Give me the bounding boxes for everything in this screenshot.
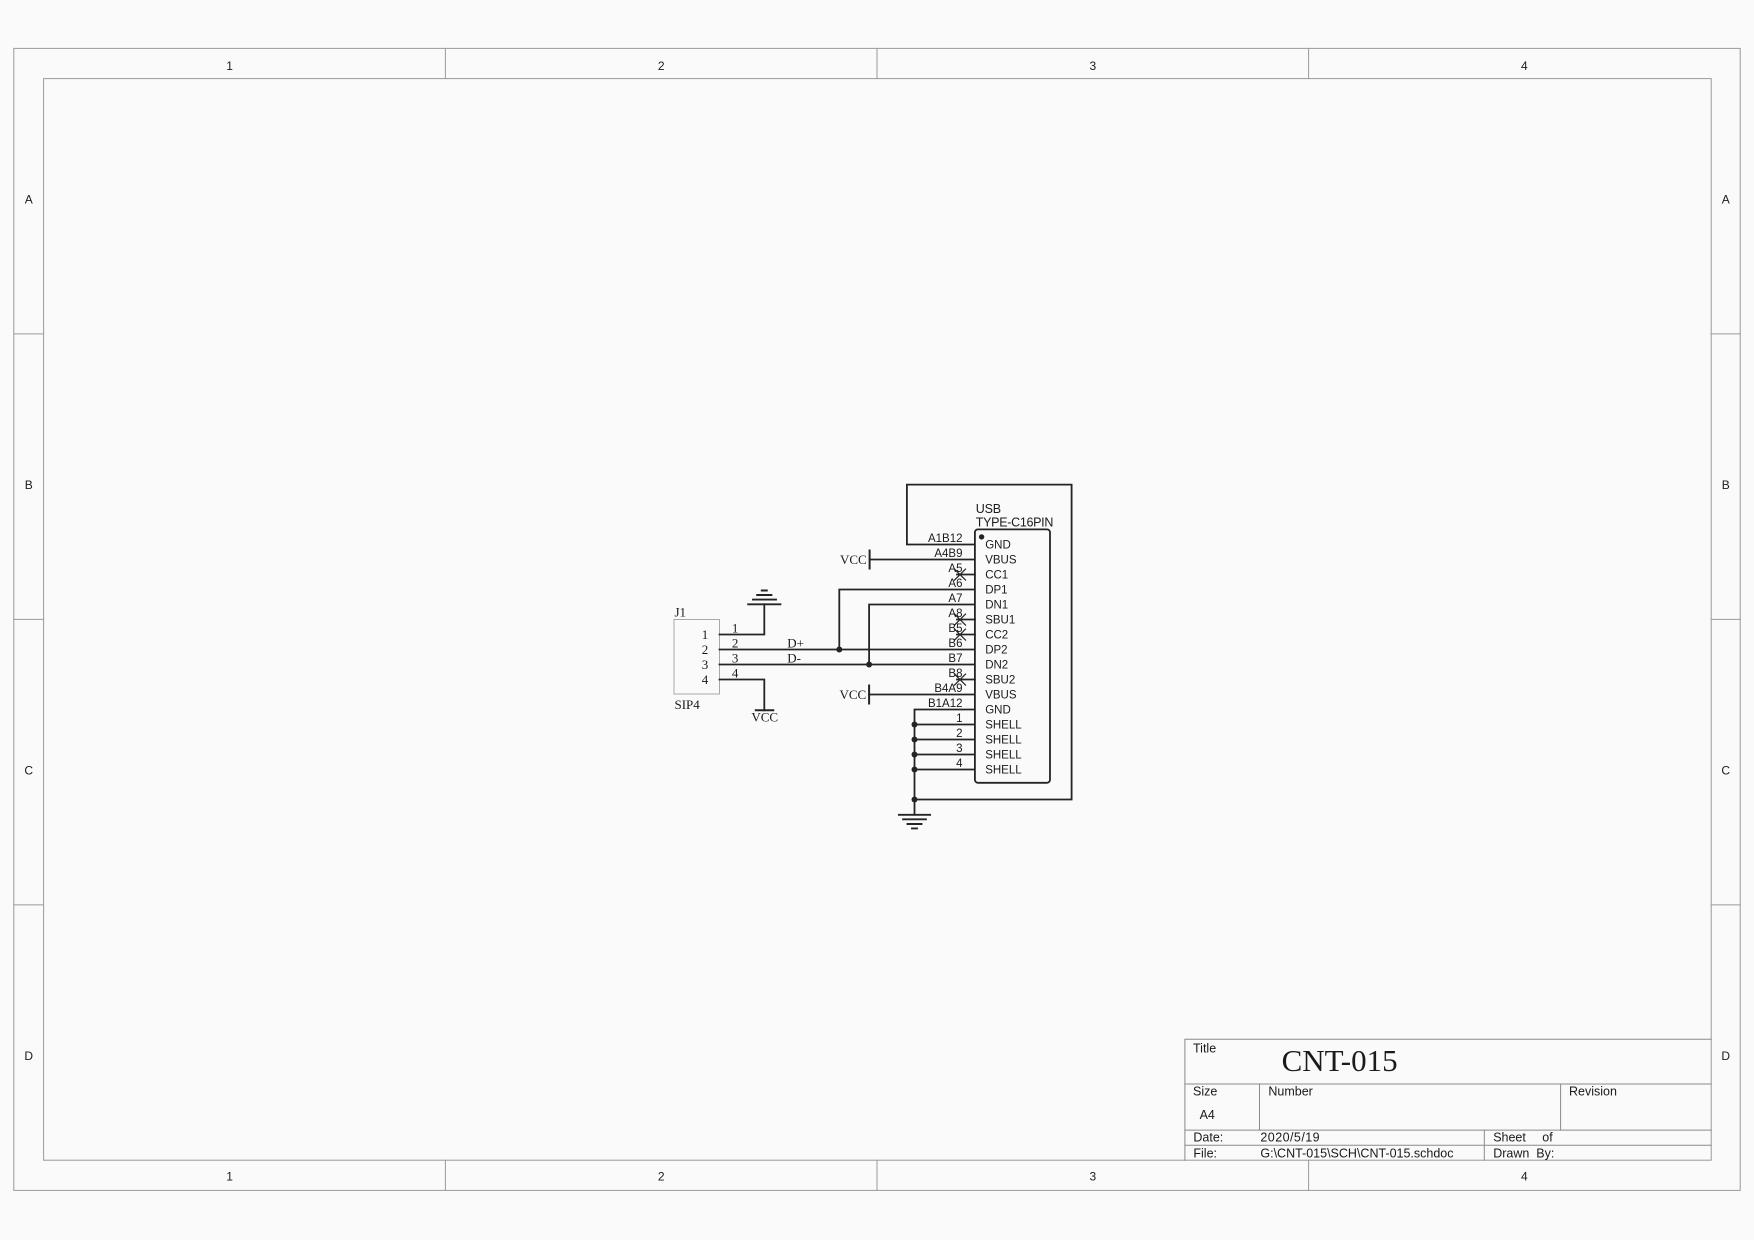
zone labels bottom 1 2 3 4 [226, 1169, 1528, 1183]
svg-text:CC2: CC2 [985, 630, 1008, 642]
connector USB TYPE-C16PIN body [975, 529, 1050, 782]
svg-text:2: 2 [732, 636, 739, 651]
zone tick marks right [1711, 334, 1740, 905]
svg-text:2: 2 [658, 59, 665, 73]
zone tick marks top [445, 48, 1308, 78]
svg-text:4: 4 [956, 758, 963, 770]
svg-text:B8: B8 [948, 668, 962, 680]
zone labels right A B C D [1721, 192, 1730, 1063]
svg-text:SBU2: SBU2 [985, 675, 1015, 687]
svg-text:3: 3 [1089, 1169, 1096, 1183]
wire D- net: J1 pin3 to DN2 [720, 664, 975, 666]
svg-text:3: 3 [732, 651, 739, 666]
wire GND loop A1B12 around connector [907, 485, 1072, 800]
wire SHELL pin 3 [915, 754, 975, 756]
svg-text:Sheet: Sheet [1493, 1130, 1526, 1144]
power symbol VCC bar at A4B9 [869, 551, 871, 569]
junction SHELL2 [912, 737, 918, 743]
svg-text:B: B [25, 478, 33, 492]
junction D+ [836, 647, 842, 653]
svg-text:SHELL: SHELL [985, 735, 1022, 747]
svg-text:B7: B7 [948, 653, 962, 665]
svg-text:1: 1 [226, 1169, 233, 1183]
wire SHELL pin 1 [915, 724, 975, 726]
pin 1 marker dot [979, 534, 984, 539]
svg-text:4: 4 [702, 672, 709, 687]
svg-text:DN1: DN1 [985, 600, 1008, 612]
svg-text:A: A [1722, 192, 1730, 206]
svg-text:GND: GND [985, 705, 1011, 717]
wire J1 pin4 to VCC [720, 680, 765, 711]
svg-text:USB: USB [976, 502, 1001, 516]
title block row dividers [1185, 1084, 1711, 1145]
wire B1A12 GND to shell bus [915, 710, 975, 815]
pin stub SBU2 B8 [957, 679, 975, 681]
title block label Title [1193, 1041, 1617, 1160]
svg-text:2: 2 [956, 728, 962, 740]
wire D+ branch to DP1 [839, 590, 975, 650]
junction shell bus bottom [912, 797, 918, 803]
svg-text:2: 2 [702, 642, 709, 657]
svg-text:B6: B6 [948, 638, 962, 650]
wire D- branch to DN1 [869, 605, 975, 665]
svg-text:of: of [1542, 1130, 1553, 1144]
title block outline [1185, 1039, 1711, 1160]
svg-text:VCC: VCC [839, 687, 866, 702]
svg-text:4: 4 [732, 666, 739, 681]
pin stub CC2 B5 [957, 634, 975, 636]
svg-text:VBUS: VBUS [985, 555, 1017, 567]
no-connect X at A8 [955, 614, 966, 625]
svg-text:4: 4 [1521, 59, 1528, 73]
zone tick marks bottom [445, 1160, 1308, 1190]
svg-text:SHELL: SHELL [985, 720, 1022, 732]
svg-text:D: D [1721, 1049, 1730, 1063]
svg-text:A: A [25, 192, 33, 206]
svg-text:A5: A5 [948, 563, 962, 575]
svg-text:A1B12: A1B12 [928, 533, 963, 545]
svg-text:VCC: VCC [751, 709, 778, 724]
svg-text:SHELL: SHELL [985, 750, 1022, 762]
svg-text:Drawn By:: Drawn By: [1493, 1146, 1554, 1160]
zone labels left A B C D [24, 192, 33, 1063]
connector J1 body [674, 620, 720, 695]
no-connect X at A5 [955, 569, 966, 580]
svg-text:VCC: VCC [840, 552, 867, 567]
svg-text:GND: GND [985, 540, 1011, 552]
pin stub SBU1 A8 [957, 619, 975, 621]
svg-text:D-: D- [787, 651, 801, 666]
svg-text:B1A12: B1A12 [928, 698, 963, 710]
title block column dividers [1260, 1084, 1561, 1160]
svg-text:Date:: Date: [1193, 1130, 1223, 1144]
svg-text:1: 1 [956, 713, 962, 725]
svg-text:SBU1: SBU1 [985, 615, 1015, 627]
no-connect X at B5 [955, 629, 966, 640]
power symbol VCC bar below J1 [756, 709, 774, 711]
svg-text:C: C [1721, 764, 1730, 778]
pin names inside USB connector [985, 540, 1022, 777]
svg-text:G:\CNT-015\SCH\CNT-015.schdoc: G:\CNT-015\SCH\CNT-015.schdoc [1260, 1146, 1453, 1160]
svg-text:SHELL: SHELL [985, 765, 1022, 777]
svg-text:2020/5/19: 2020/5/19 [1260, 1130, 1320, 1144]
pin designators of USB connector [928, 533, 963, 770]
svg-text:Size: Size [1193, 1084, 1217, 1098]
svg-text:CNT-015: CNT-015 [1282, 1043, 1398, 1078]
svg-text:File:: File: [1193, 1146, 1217, 1160]
pin stub CC1 A5 [957, 574, 975, 576]
earth ground symbol bottom [899, 815, 930, 829]
wire VCC to VBUS B4A9 [869, 694, 975, 696]
svg-text:3: 3 [702, 657, 709, 672]
J1 inside pin numbers 1-4 [702, 627, 709, 687]
svg-text:TYPE-C16PIN: TYPE-C16PIN [976, 516, 1054, 530]
svg-text:1: 1 [702, 627, 709, 642]
svg-text:A6: A6 [948, 578, 962, 590]
svg-text:D+: D+ [787, 636, 804, 651]
svg-text:Revision: Revision [1569, 1084, 1617, 1098]
svg-text:4: 4 [1521, 1169, 1528, 1183]
wire J1 pin1 to ground [720, 604, 765, 634]
svg-text:A4: A4 [1200, 1108, 1215, 1122]
wire SHELL pin 2 [915, 739, 975, 741]
svg-text:2: 2 [658, 1169, 665, 1183]
junction SHELL4 [912, 767, 918, 773]
svg-text:1: 1 [732, 621, 739, 636]
svg-text:D: D [24, 1049, 33, 1063]
svg-text:1: 1 [226, 59, 233, 73]
junction D- [866, 662, 872, 668]
svg-text:A8: A8 [948, 608, 962, 620]
svg-text:J1: J1 [675, 604, 687, 619]
earth ground symbol top [748, 591, 780, 605]
svg-text:Title: Title [1193, 1041, 1216, 1055]
svg-text:B4A9: B4A9 [934, 683, 962, 695]
svg-text:3: 3 [956, 743, 962, 755]
zone tick marks left [14, 334, 44, 905]
junction SHELL3 [912, 752, 918, 758]
svg-text:VBUS: VBUS [985, 690, 1017, 702]
junction SHELL1 [912, 722, 918, 728]
svg-text:CC1: CC1 [985, 570, 1008, 582]
zone labels top 1 2 3 4 [226, 59, 1528, 73]
svg-text:Number: Number [1268, 1084, 1312, 1098]
svg-text:A7: A7 [948, 593, 962, 605]
svg-text:B5: B5 [948, 623, 962, 635]
svg-text:3: 3 [1089, 59, 1096, 73]
svg-text:A4B9: A4B9 [934, 548, 962, 560]
svg-text:DP1: DP1 [985, 585, 1007, 597]
svg-text:SIP4: SIP4 [675, 697, 701, 712]
svg-text:B: B [1722, 478, 1730, 492]
wire SHELL pin 4 [915, 769, 975, 771]
wire D+ net: J1 pin2 to DP2 [720, 649, 975, 651]
svg-text:DP2: DP2 [985, 645, 1007, 657]
svg-text:DN2: DN2 [985, 660, 1008, 672]
no-connect X at B8 [955, 674, 966, 685]
svg-text:C: C [24, 764, 33, 778]
power symbol VCC bar at B4A9 [868, 686, 870, 704]
wire VCC to VBUS A4B9 [870, 559, 975, 561]
